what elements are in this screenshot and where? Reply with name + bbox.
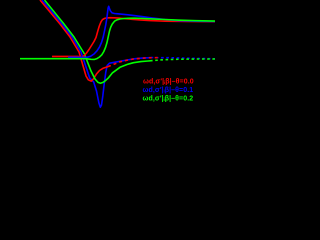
curve B-blue recovery dashed xyxy=(152,58,215,59)
curve B-green recovery dashed xyxy=(150,59,215,61)
curve A-red step xyxy=(52,18,215,58)
chart panel xyxy=(0,0,215,145)
curve B-red recovery dashed xyxy=(108,58,160,67)
curve B-blue dip xyxy=(42,0,152,107)
svg-text:ωd,σ′|ᵢβ|–θ=0.0: ωd,σ′|ᵢβ|–θ=0.0 xyxy=(143,79,194,86)
curve A-green step xyxy=(20,18,215,59)
svg-text:ωd,σ′|ᵢβ|–θ=0.2: ωd,σ′|ᵢβ|–θ=0.2 xyxy=(143,95,194,102)
svg-text:ωd,σ′|ᵢβ|–θ=0.1: ωd,σ′|ᵢβ|–θ=0.1 xyxy=(143,87,194,94)
curve B-red dip xyxy=(40,0,108,81)
curve B-green dip xyxy=(45,0,151,83)
curve A-blue step with spike xyxy=(68,6,215,57)
